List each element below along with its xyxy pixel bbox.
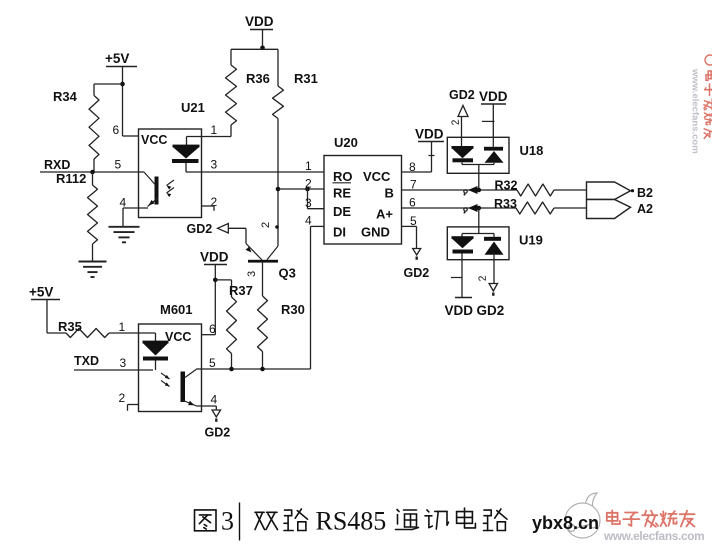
op-amp U20 (RS485 transceiver body) (324, 135, 402, 244)
svg-text:RE: RE (333, 186, 351, 201)
node GD2 (left arrow) (187, 222, 247, 236)
node B2 tip (631, 189, 634, 192)
svg-text:VCC: VCC (165, 330, 191, 344)
pin labels U20 right (361, 169, 394, 240)
diode M601 LED (143, 333, 169, 370)
svg-text:VDD: VDD (200, 250, 229, 265)
svg-text:6: 6 (113, 123, 120, 137)
svg-text:VCC: VCC (363, 169, 391, 184)
svg-text:GD2: GD2 (187, 222, 213, 236)
wire M601 pin 4 to GD2 (197, 393, 218, 411)
svg-text:R30: R30 (281, 302, 305, 317)
watermark elecfans (top right, rotated) (690, 55, 712, 154)
svg-text:VDD: VDD (445, 303, 474, 318)
diode U21 LED (172, 137, 200, 173)
transistor M601 phototransistor (161, 370, 197, 407)
svg-text:TXD: TXD (74, 354, 99, 368)
power VDD (top middle) (245, 14, 274, 48)
svg-text:R35: R35 (58, 319, 82, 334)
resistor R34 (53, 84, 99, 172)
node +5V/R34 junction (120, 82, 125, 87)
svg-text:RS485: RS485 (316, 507, 387, 536)
svg-text:1: 1 (305, 159, 312, 173)
svg-text:R112: R112 (56, 171, 86, 186)
wire U20 pin 6 (A+) (402, 196, 517, 210)
wire R32 to connector (554, 189, 587, 191)
wire M601 pin 2 stub (119, 391, 139, 411)
svg-text:U19: U19 (519, 233, 543, 248)
wire U20 pin 8 (VCC) to VDD (402, 160, 432, 174)
pin labels U20 left (333, 169, 353, 240)
op-amp M601 (optocoupler body) (139, 302, 202, 412)
svg-text:+5V: +5V (29, 285, 53, 300)
resistor R32 (495, 179, 555, 197)
op-amp U21 (optocoupler body) (139, 100, 205, 218)
wire U20 DI vertical (310, 226, 312, 369)
wire U18 common tee (462, 165, 494, 191)
svg-text:R36: R36 (246, 71, 270, 86)
resistor R36 (226, 49, 270, 136)
wire U21 pin 4 to ground (120, 196, 149, 227)
wire U20 pin 5 (GND) to GD2 (402, 214, 418, 249)
svg-text:DE: DE (333, 204, 351, 219)
ground GD2 (below U19 right) (477, 255, 505, 318)
resistor R37 (227, 283, 253, 369)
wire U21 pin 6 VCC feed (113, 123, 139, 137)
svg-text:RXD: RXD (44, 158, 70, 172)
op-amp U18 (diode pair body) (447, 137, 543, 173)
svg-text:GD2: GD2 (205, 426, 231, 440)
svg-text:VDD: VDD (245, 14, 274, 29)
svg-text:VDD: VDD (415, 127, 444, 142)
wire pin2-pin3 tie (307, 189, 309, 209)
wire U21 pin 3 line to U20 pin 1 (186, 171, 324, 173)
wire GD2 to Q3 emitter (245, 228, 247, 243)
svg-text:R33: R33 (494, 197, 517, 211)
power +5V (top) (105, 51, 137, 136)
power VDD (above M601) (200, 250, 229, 335)
wire Q3 base to R30 (262, 263, 264, 296)
svg-text:1: 1 (119, 320, 126, 334)
node U18/B-line junction (464, 186, 482, 196)
svg-text:1: 1 (211, 123, 218, 137)
svg-text:VDD: VDD (479, 89, 508, 104)
svg-text:GD2: GD2 (477, 303, 505, 318)
transistor U21 phototransistor (144, 172, 174, 207)
connector pin A2 (587, 200, 631, 219)
ground GD2 (U20 pin5) (404, 249, 430, 281)
node R34/R112/RXD junction (90, 170, 95, 175)
svg-text:5: 5 (209, 356, 216, 370)
resistor R112 (56, 171, 98, 262)
wire M601 pin 6 (202, 322, 217, 336)
svg-text:2: 2 (260, 222, 272, 228)
svg-text:3: 3 (120, 356, 127, 370)
svg-text:R37: R37 (229, 283, 253, 298)
wire R31 rail down to Q3 collector (277, 119, 279, 247)
ground (U21 pin 4) (109, 227, 140, 243)
diode U18 left (452, 146, 474, 165)
svg-text:M601: M601 (160, 302, 193, 317)
svg-text:www.elecfans.com: www.elecfans.com (690, 68, 701, 154)
svg-text:ybx8.cn: ybx8.cn (532, 513, 599, 533)
svg-text:3: 3 (305, 196, 312, 210)
node VDD/R37/M601 pin6 junction (213, 278, 218, 283)
node R37/rail junction (229, 367, 234, 372)
svg-text:3: 3 (211, 158, 218, 172)
caption: 图 3 | 双路 RS485 通讯电路 (195, 503, 508, 541)
ground GD2 (M601 pin4) (205, 410, 231, 440)
wire TXD line (74, 356, 153, 370)
svg-text:DI: DI (333, 225, 346, 240)
svg-text:GND: GND (361, 225, 390, 240)
diode U18 right (484, 147, 504, 165)
node U19/A-line junction (464, 204, 482, 214)
wire U20 pin 7 (B) (402, 178, 518, 192)
node VDD/R36/R31 junction (260, 46, 265, 51)
svg-text:A2: A2 (637, 202, 653, 216)
wire R33 to connector (554, 207, 587, 209)
svg-text:3: 3 (221, 507, 234, 536)
svg-text:2: 2 (450, 119, 462, 126)
wire U20 pin 4 (DI) (305, 214, 324, 228)
svg-text:Q3: Q3 (279, 266, 296, 281)
node R30/rail junction (260, 367, 265, 372)
ground GD2 (above U18) (449, 88, 475, 147)
svg-text:5: 5 (115, 158, 122, 172)
resistor R35 (58, 319, 109, 338)
power VDD (above U18) (479, 89, 508, 147)
power VDD (below U19 left) (445, 254, 474, 319)
connector pin B2 (587, 182, 631, 200)
svg-text:3: 3 (246, 271, 258, 277)
node (small) on rail near Q3 (275, 225, 279, 229)
op-amp U19 (diode pair body) (447, 227, 543, 260)
svg-text:2: 2 (477, 275, 489, 282)
svg-text:B2: B2 (637, 186, 653, 200)
svg-text:U18: U18 (520, 143, 544, 158)
wire U21 pin 2 stub (202, 195, 218, 211)
resistor R30 (258, 296, 305, 369)
diode U19 right (484, 237, 504, 255)
svg-text:R32: R32 (495, 179, 518, 193)
wire U20 pin 2 (RE) (278, 177, 324, 191)
svg-text:+5V: +5V (105, 51, 129, 66)
svg-text:4: 4 (211, 393, 218, 407)
svg-text:GD2: GD2 (449, 88, 475, 102)
svg-text:VCC: VCC (141, 133, 167, 147)
watermark elecfans (bottom right) (603, 510, 704, 543)
wire A-line to U19 (478, 208, 480, 234)
svg-text:2: 2 (119, 391, 126, 405)
svg-text:A+: A+ (376, 207, 393, 222)
svg-text:www.elecfans.com: www.elecfans.com (603, 529, 704, 543)
resistor R33 (494, 197, 554, 214)
svg-text:U21: U21 (181, 100, 205, 115)
node R31/U20 pin2 junction (276, 187, 281, 192)
wire VDD junction to R37 (215, 280, 231, 297)
diode U19 left (452, 236, 474, 253)
wire VDD bus (231, 48, 278, 50)
svg-text:4: 4 (305, 214, 312, 228)
svg-text:R31: R31 (294, 71, 318, 86)
wire R35 to M601 pin 1 (109, 320, 156, 334)
wire U21 pin 1 to R36 (187, 123, 232, 137)
ground (below R112) (79, 262, 107, 278)
watermark ybx8.cn logo (532, 493, 600, 538)
transistor Q3 (246, 244, 296, 281)
svg-text:B: B (385, 186, 394, 201)
power +5V (bottom) (29, 285, 66, 334)
svg-text:RO: RO (333, 169, 353, 184)
power VDD (at U20 pin8) (415, 127, 444, 173)
wire M601 pin5 rail (202, 368, 311, 370)
wire U19 common tee (462, 234, 494, 237)
svg-text:R34: R34 (53, 89, 78, 104)
svg-text:U20: U20 (334, 135, 358, 150)
node pin2/pin3 tie (305, 187, 310, 192)
wire RXD line into U21 pin 5 (40, 171, 144, 173)
wire U20 pin 3 (DE) (305, 196, 324, 210)
wire M601 pin 5 (196, 356, 216, 370)
svg-text:GD2: GD2 (404, 266, 430, 280)
wire +5V to R34 (94, 83, 123, 85)
svg-text:6: 6 (209, 322, 216, 336)
resistor R31 (273, 49, 318, 118)
